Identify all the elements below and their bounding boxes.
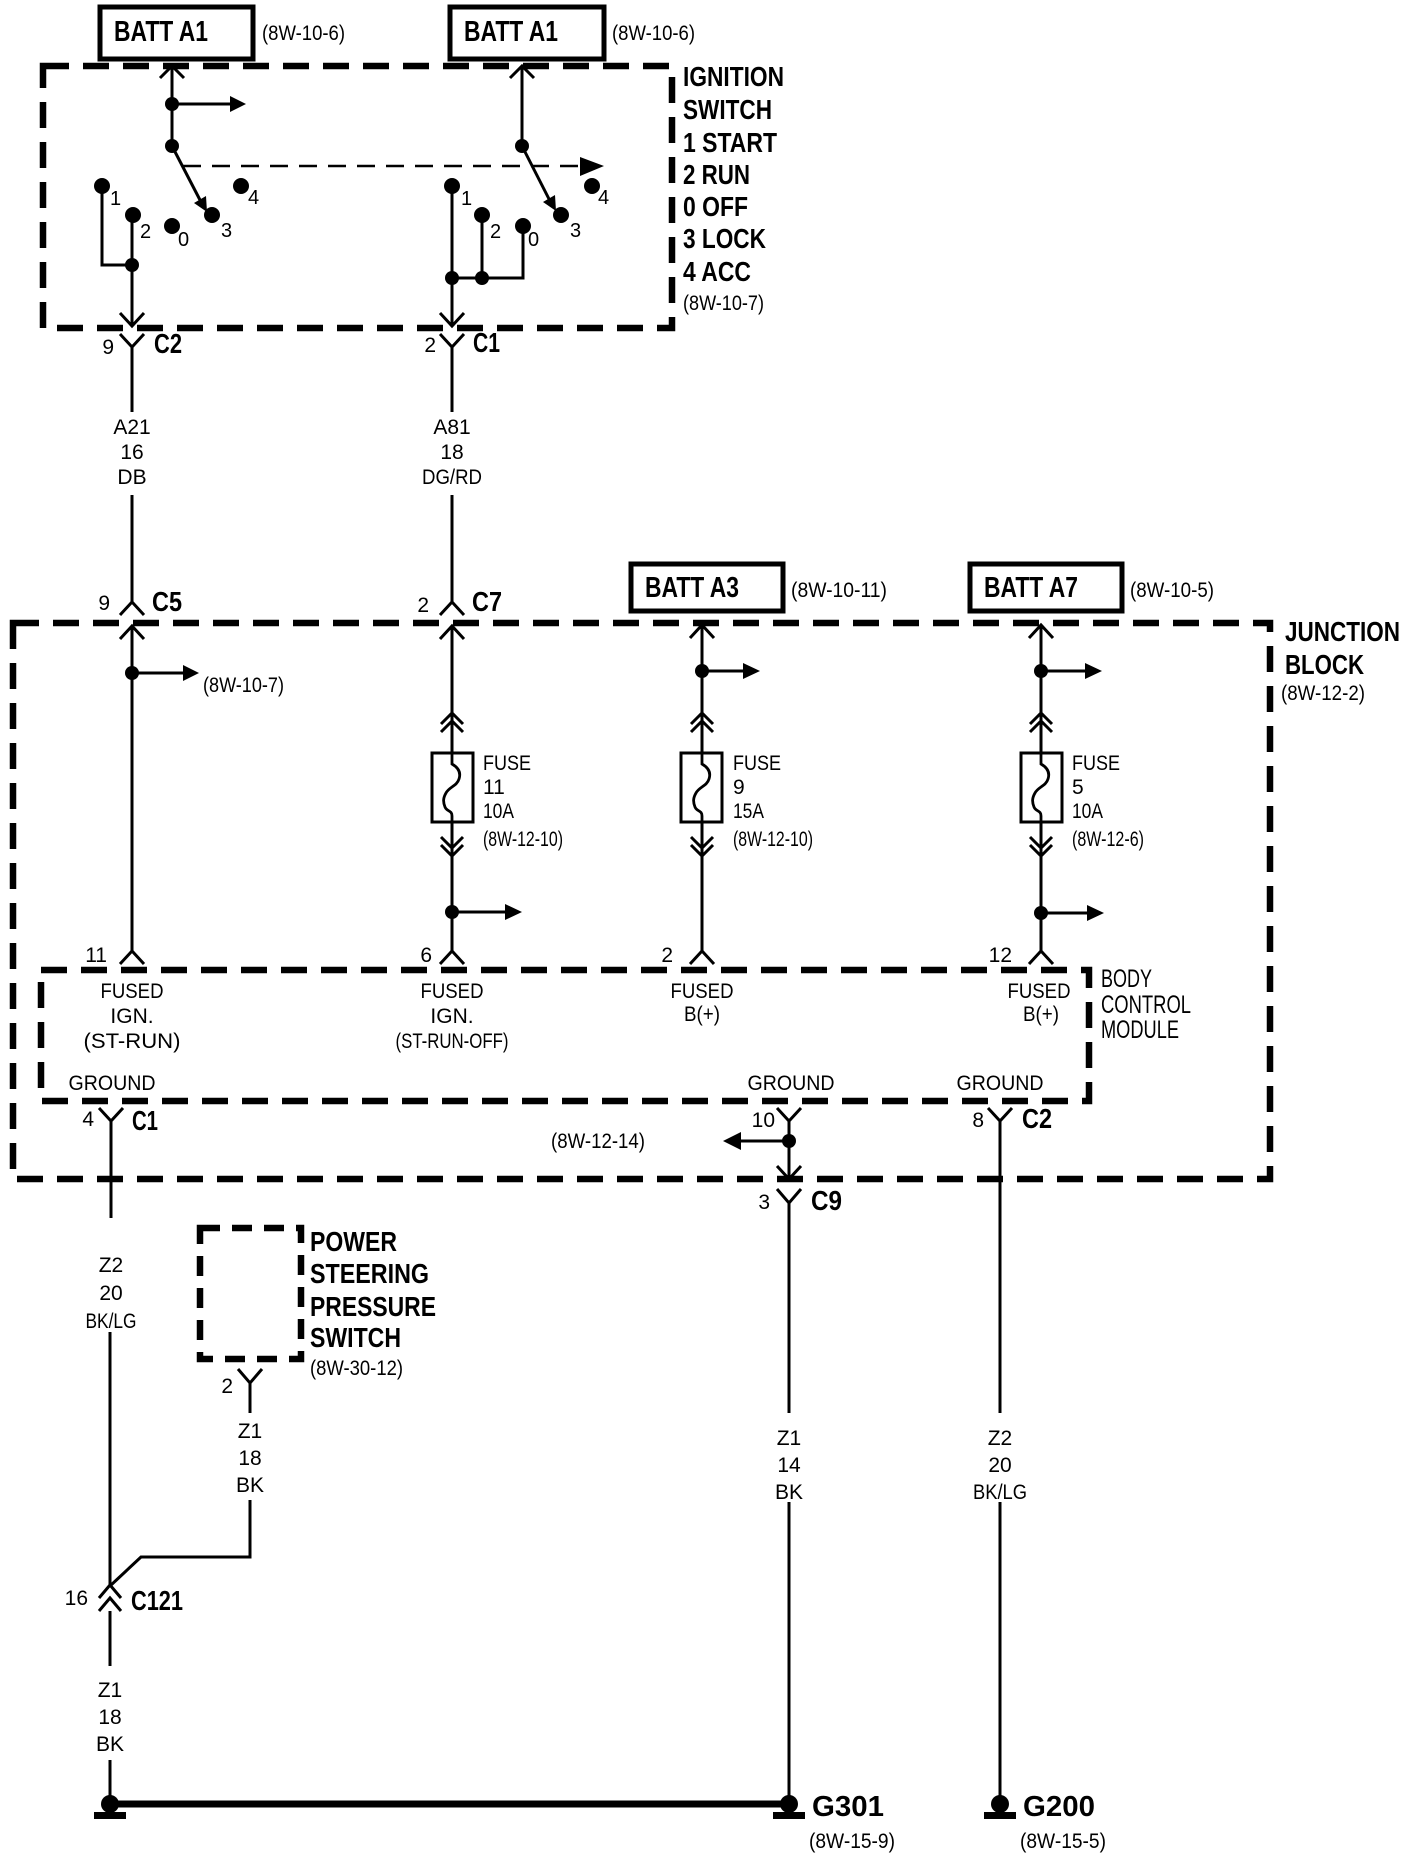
connector arrow up to BATT A1 right (male) [510, 66, 534, 78]
fuse 5 body [1021, 753, 1062, 822]
connector C2 female Y [102, 328, 182, 362]
connector arrow up at C5 (male) [120, 626, 144, 639]
svg-text:Z2: Z2 [99, 1254, 124, 1277]
svg-text:1: 1 [461, 188, 472, 210]
wire from contact 2 right [481, 219, 484, 278]
svg-text:(8W-12-10): (8W-12-10) [483, 828, 563, 851]
wire col1 junction block [131, 626, 134, 951]
box BATT A3 [631, 564, 783, 611]
svg-text:BATT A1: BATT A1 [464, 16, 558, 48]
svg-text:GROUND: GROUND [69, 1072, 156, 1095]
svg-text:(8W-10-5): (8W-10-5) [1130, 579, 1214, 602]
svg-text:(8W-30-12): (8W-30-12) [310, 1357, 403, 1380]
BCM pin 6 function label [396, 980, 509, 1053]
wire label Z1 18 BK (PSPS) [236, 1420, 264, 1497]
connector arrow up to BATT A1 left (male) [160, 66, 184, 78]
wire label Z2 20 BK/LG (pin 4) [86, 1254, 137, 1333]
svg-text:0: 0 [528, 229, 539, 251]
wire A81 lower [451, 495, 454, 602]
junction dot col4 [1034, 664, 1048, 678]
svg-text:JUNCTION: JUNCTION [1285, 616, 1400, 647]
junction dot right output b [475, 271, 489, 285]
fuse 9 labels [733, 752, 813, 851]
svg-text:9: 9 [98, 592, 110, 615]
svg-text:MODULE: MODULE [1101, 1016, 1179, 1044]
connector arrow up to BATT A3 (male) [690, 625, 714, 638]
svg-text:FUSED: FUSED [671, 980, 734, 1003]
wire label A21 16 DB [113, 416, 150, 489]
svg-text:DB: DB [117, 466, 146, 489]
svg-text:15A: 15A [733, 800, 764, 823]
svg-text:Z1: Z1 [98, 1679, 123, 1702]
svg-text:18: 18 [238, 1447, 261, 1470]
BCM pin 11 function label [84, 980, 181, 1053]
svg-text:2: 2 [140, 221, 151, 243]
svg-text:PRESSURE: PRESSURE [310, 1291, 436, 1322]
BCM name labels [1101, 965, 1191, 1044]
svg-text:5: 5 [1072, 776, 1084, 799]
svg-text:(ST-RUN): (ST-RUN) [84, 1030, 181, 1053]
wire Z1 from C9 [788, 1203, 791, 1413]
wire down to C2 [131, 265, 134, 324]
svg-text:0: 0 [178, 229, 189, 251]
svg-text:(8W-10-7): (8W-10-7) [683, 292, 764, 315]
svg-text:GROUND: GROUND [957, 1072, 1044, 1095]
ground G301 [773, 1791, 895, 1853]
connector arrow down at C2 (male) [120, 313, 144, 326]
connector arrow up at C7 (male) [440, 626, 464, 639]
svg-text:18: 18 [98, 1706, 121, 1729]
fuse 5 labels [1072, 752, 1144, 851]
wire Z1 below C121 [109, 1611, 112, 1666]
contact 3 right [553, 207, 569, 223]
pin 6 fork into BCM [420, 944, 464, 967]
connector C121 male double chevron [65, 1585, 183, 1616]
ground bus wire [110, 1801, 789, 1808]
PSPS name labels [310, 1226, 436, 1380]
wire A21 lower [131, 495, 134, 602]
svg-text:20: 20 [988, 1454, 1011, 1477]
svg-text:C121: C121 [131, 1585, 183, 1616]
svg-text:10A: 10A [483, 800, 514, 823]
svg-text:BATT A7: BATT A7 [984, 572, 1078, 604]
svg-text:3: 3 [758, 1191, 770, 1214]
svg-text:3: 3 [570, 220, 581, 242]
junction dot right output a [445, 271, 459, 285]
connector pin 2 female Y at PSPS [221, 1369, 262, 1398]
svg-text:3: 3 [221, 220, 232, 242]
wire from contact 1 right down to C1 [451, 190, 454, 324]
svg-text:16: 16 [120, 441, 143, 464]
wire Z2 to G200 [999, 1502, 1002, 1798]
svg-text:1: 1 [110, 188, 121, 210]
svg-text:4: 4 [82, 1108, 94, 1131]
junction block dashed box [13, 623, 1270, 1179]
svg-text:STEERING: STEERING [310, 1258, 429, 1289]
svg-text:2: 2 [424, 334, 436, 357]
svg-text:BK/LG: BK/LG [973, 1481, 1027, 1504]
svg-text:BK: BK [775, 1481, 803, 1504]
svg-text:12: 12 [989, 944, 1012, 967]
svg-text:2: 2 [661, 944, 673, 967]
svg-text:2: 2 [417, 594, 429, 617]
pin 11 fork into BCM [85, 944, 144, 967]
svg-text:(8W-10-6): (8W-10-6) [612, 22, 695, 45]
branch arrow right col4 [1041, 663, 1102, 679]
svg-text:BATT A1: BATT A1 [114, 16, 208, 48]
wire col2 junction block [451, 626, 454, 951]
svg-text:2: 2 [221, 1375, 233, 1398]
BCM pin 12 function label [1008, 980, 1071, 1026]
contact 2 right [474, 207, 490, 223]
svg-text:4: 4 [598, 187, 609, 209]
junction dot left feed [165, 97, 179, 111]
svg-text:2 RUN: 2 RUN [683, 159, 750, 190]
male double chevron col3 top [691, 713, 713, 732]
svg-text:Z2: Z2 [988, 1427, 1013, 1450]
svg-text:3 LOCK: 3 LOCK [683, 223, 766, 254]
svg-text:10A: 10A [1072, 800, 1103, 823]
svg-text:SWITCH: SWITCH [683, 94, 772, 125]
box BATT A1 (right feed) [450, 7, 604, 59]
svg-text:14: 14 [777, 1454, 801, 1477]
contact 1 right [444, 178, 460, 194]
svg-text:(8W-15-9): (8W-15-9) [809, 1830, 895, 1853]
svg-text:IGNITION: IGNITION [683, 61, 784, 92]
svg-text:C9: C9 [811, 1185, 842, 1216]
junction dot col1 [125, 666, 139, 680]
wire Z1 to G301 [788, 1502, 791, 1798]
pin 2 fork into BCM [661, 944, 714, 967]
wire label Z1 18 BK (to ground) [96, 1679, 124, 1756]
connector arrow down at C9 (male) [777, 1166, 801, 1179]
svg-text:(8W-10-6): (8W-10-6) [262, 22, 345, 45]
ground G200 [984, 1791, 1106, 1853]
wire label Z1 14 BK [775, 1427, 803, 1504]
ground splice dot left [101, 1795, 119, 1813]
male double chevron col2 bottom [441, 837, 463, 856]
svg-text:G200: G200 [1023, 1791, 1095, 1823]
box BATT A1 (left feed) [100, 7, 253, 59]
svg-text:1 START: 1 START [683, 127, 777, 158]
branch arrow left from pin 10 [723, 1132, 789, 1150]
switch position dashed line with arrow [183, 157, 604, 176]
connector C5 female fork [98, 586, 182, 617]
svg-text:4: 4 [248, 187, 259, 209]
svg-text:FUSED: FUSED [101, 980, 164, 1003]
contact 0 right [515, 218, 531, 234]
wire Z2 from pin 4 [110, 1121, 113, 1218]
svg-text:2: 2 [490, 221, 501, 243]
contact 4 right [584, 178, 600, 194]
switch pivot dot left [165, 139, 179, 153]
svg-text:FUSE: FUSE [1072, 752, 1120, 775]
contact number labels left switch [110, 187, 259, 251]
svg-text:(8W-12-6): (8W-12-6) [1072, 828, 1144, 851]
svg-text:BK: BK [96, 1733, 124, 1756]
wire A21 upper [131, 362, 134, 412]
wire col4 junction block [1040, 625, 1043, 951]
svg-text:GROUND: GROUND [748, 1072, 835, 1095]
power steering pressure switch dashed box [200, 1228, 301, 1359]
wire Z1 from PSPS lower to splice [110, 1500, 250, 1586]
branch arrow right col2 [452, 904, 522, 920]
wire feed left switch [171, 66, 174, 146]
svg-text:C2: C2 [1022, 1103, 1052, 1134]
junction dot left output [125, 258, 139, 272]
wire col3 junction block [701, 625, 704, 951]
svg-text:Z1: Z1 [238, 1420, 263, 1443]
svg-text:6: 6 [420, 944, 432, 967]
wire A81 upper [451, 362, 454, 412]
svg-text:FUSED: FUSED [421, 980, 484, 1003]
svg-text:FUSED: FUSED [1008, 980, 1071, 1003]
male double chevron col3 bottom [691, 837, 713, 856]
connector C7 female fork [417, 586, 502, 617]
contact 4 left [233, 178, 249, 194]
svg-text:(8W-12-2): (8W-12-2) [1281, 682, 1365, 705]
svg-text:20: 20 [99, 1282, 122, 1305]
svg-text:4 ACC: 4 ACC [683, 256, 751, 287]
svg-text:C2: C2 [154, 328, 182, 359]
svg-text:DG/RD: DG/RD [422, 466, 482, 489]
svg-text:10: 10 [752, 1109, 775, 1132]
wire from contact 1 left [102, 190, 132, 265]
svg-text:(8W-10-7): (8W-10-7) [203, 674, 284, 697]
svg-text:8: 8 [972, 1109, 984, 1132]
contact 1 left [94, 178, 110, 194]
svg-text:BODY: BODY [1101, 965, 1152, 993]
svg-text:CONTROL: CONTROL [1101, 991, 1191, 1019]
connector pin 10 female Y [752, 1108, 801, 1132]
svg-text:0 OFF: 0 OFF [683, 191, 748, 222]
svg-text:A21: A21 [113, 416, 150, 439]
svg-text:BATT A3: BATT A3 [645, 572, 739, 604]
male double chevron col2 top [441, 713, 463, 732]
pin 12 fork into BCM [989, 944, 1053, 967]
svg-text:11: 11 [85, 944, 107, 967]
body control module dashed box [41, 970, 1089, 1101]
branch arrow right col3 [702, 663, 760, 679]
svg-text:C1: C1 [473, 327, 500, 358]
connector C9 female Y [758, 1185, 842, 1216]
svg-text:18: 18 [440, 441, 463, 464]
wire pin 10 stem [788, 1121, 791, 1177]
svg-text:C5: C5 [152, 586, 182, 617]
ignition switch name labels [683, 61, 784, 315]
svg-text:A81: A81 [433, 416, 470, 439]
wire from contact 2 left [131, 219, 134, 265]
wire Z1 to ground bus [109, 1760, 112, 1798]
svg-text:BK: BK [236, 1474, 264, 1497]
junction dot pin 10 [782, 1134, 796, 1148]
wire Z2 lower to C121 [109, 1332, 112, 1586]
contact 0 left [164, 218, 180, 234]
male double chevron col4 top [1030, 713, 1052, 732]
BCM pin 2 function label [671, 980, 734, 1026]
male double chevron col4 bottom [1030, 837, 1052, 856]
wire Z1 from PSPS upper [249, 1383, 252, 1413]
wire label Z2 20 BK/LG (pin 8) [973, 1427, 1027, 1504]
fuse 9 body [681, 753, 722, 822]
svg-text:SWITCH: SWITCH [310, 1322, 401, 1353]
svg-text:BK/LG: BK/LG [86, 1310, 137, 1333]
junction block name labels [1281, 616, 1400, 705]
svg-text:IGN.: IGN. [110, 1005, 153, 1028]
junction dot col3 [695, 664, 709, 678]
svg-text:(8W-12-14): (8W-12-14) [551, 1130, 645, 1153]
connector pin 8 female Y [972, 1103, 1052, 1134]
svg-text:G301: G301 [812, 1791, 884, 1823]
switch lever left (to position 3) [172, 146, 207, 212]
svg-text:11: 11 [483, 776, 505, 799]
contact 3 left [204, 207, 220, 223]
branch arrow right from left feed [172, 96, 246, 112]
svg-text:FUSE: FUSE [483, 752, 531, 775]
svg-text:POWER: POWER [310, 1226, 397, 1257]
svg-text:(8W-10-11): (8W-10-11) [791, 579, 887, 602]
junction dot col4 lower [1034, 906, 1048, 920]
svg-text:B(+): B(+) [1023, 1003, 1059, 1026]
svg-text:BLOCK: BLOCK [1285, 649, 1364, 680]
fuse 11 body [432, 753, 473, 822]
contact 2 left [125, 207, 141, 223]
svg-text:9: 9 [733, 776, 745, 799]
connector arrow down at C1 (male) [440, 313, 464, 326]
svg-text:B(+): B(+) [684, 1003, 720, 1026]
switch lever right (to position 3) [522, 146, 556, 211]
fuse 11 labels [483, 752, 563, 851]
svg-text:C7: C7 [472, 586, 502, 617]
wire Z2 from pin 8 [999, 1121, 1002, 1413]
svg-text:(8W-15-5): (8W-15-5) [1020, 1830, 1106, 1853]
connector C1 female Y [424, 327, 500, 362]
wire label A81 18 DG/RD [422, 416, 482, 489]
connector arrow up to BATT A7 (male) [1029, 625, 1053, 638]
svg-text:C1: C1 [132, 1105, 158, 1136]
wire feed right switch [521, 66, 524, 146]
switch pivot dot right [515, 139, 529, 153]
ignition switch dashed box [43, 66, 672, 328]
svg-text:FUSE: FUSE [733, 752, 781, 775]
ground bar left [94, 1812, 126, 1819]
svg-text:Z1: Z1 [777, 1427, 802, 1450]
svg-text:IGN.: IGN. [430, 1005, 473, 1028]
contact number labels right switch [461, 187, 609, 251]
svg-text:16: 16 [65, 1587, 88, 1610]
junction dot col2 [445, 905, 459, 919]
svg-text:(8W-12-10): (8W-12-10) [733, 828, 813, 851]
svg-text:9: 9 [102, 336, 114, 359]
svg-text:(ST-RUN-OFF): (ST-RUN-OFF) [396, 1030, 509, 1053]
branch arrow right col4 lower [1041, 905, 1104, 921]
connector C1 pin 4 female Y [82, 1105, 158, 1136]
wire from contact 0 right [452, 230, 523, 278]
branch arrow right col1 [132, 665, 199, 681]
box BATT A7 [970, 564, 1122, 611]
